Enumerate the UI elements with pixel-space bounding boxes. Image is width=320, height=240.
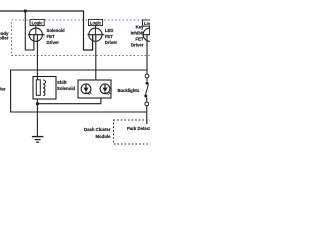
svg-text:Driver: Driver — [131, 43, 144, 48]
wire driver2 output — [95, 35, 97, 80]
wire VBAT top rail — [0, 11, 93, 50]
logic block channel 2 — [88, 19, 102, 25]
svg-text:Module: Module — [95, 134, 111, 139]
IC module boundary (dashed blue box) — [12, 20, 151, 56]
wire solenoid to ground — [36, 99, 38, 136]
svg-text:Backlights: Backlights — [118, 88, 140, 93]
logic block channel 1 — [30, 19, 44, 25]
svg-text:Logic: Logic — [144, 21, 150, 26]
connector pin upper — [145, 74, 149, 78]
svg-text:Logic: Logic — [32, 21, 44, 26]
op-amp U2 LED FET driver symbol — [87, 28, 104, 41]
load L1 shift solenoid box — [33, 77, 56, 100]
load D1 D2 backlights box — [78, 80, 111, 98]
wire rail drop channel 1 — [25, 11, 34, 50]
switch S1 park detect contacts — [146, 82, 149, 85]
wire logic1 to driver — [35, 26, 37, 35]
logic block channel 3 — [143, 20, 157, 26]
svg-text:Logic: Logic — [90, 21, 102, 26]
LED D1 — [81, 84, 91, 95]
svg-text:Controller: Controller — [0, 36, 9, 41]
svg-text:Driver: Driver — [47, 40, 60, 45]
wire driver1 output — [36, 35, 38, 77]
svg-text:Key: Key — [136, 25, 144, 30]
svg-text:Dash Cluster: Dash Cluster — [84, 127, 111, 132]
svg-text:Shifter: Shifter — [0, 87, 6, 92]
svg-text:Driver: Driver — [105, 40, 118, 45]
park detect module boundary (dashed box) — [114, 120, 157, 144]
wire driver3 output — [146, 35, 148, 74]
wire switch to pin lower — [146, 98, 148, 103]
svg-text:FET: FET — [105, 34, 113, 39]
svg-text:Inhibit: Inhibit — [131, 31, 144, 36]
svg-text:LED: LED — [105, 28, 114, 33]
op-amp U1 solenoid FET driver symbol — [28, 28, 45, 41]
wire backlight return branch — [37, 98, 101, 104]
LED D2 — [100, 84, 110, 95]
svg-text:Solenoid: Solenoid — [57, 86, 76, 91]
ground — [32, 137, 44, 143]
junction dot ground branch — [36, 102, 39, 105]
svg-text:FET: FET — [47, 34, 55, 39]
wire logic2 to driver — [94, 26, 96, 35]
wire logic3 to driver — [149, 26, 151, 35]
svg-text:Park Detect: Park Detect — [127, 126, 150, 131]
wire into park detect module — [146, 106, 148, 124]
op-amp U3 key inhibit FET driver symbol — [142, 28, 156, 41]
connector pin lower — [145, 102, 149, 106]
junction dot on rail — [24, 9, 27, 12]
svg-text:FET: FET — [135, 37, 143, 42]
wire pin to switch — [146, 78, 148, 82]
wire return bus loop — [11, 70, 147, 112]
svg-text:Shift: Shift — [57, 80, 67, 85]
svg-text:Solenoid: Solenoid — [47, 28, 66, 33]
